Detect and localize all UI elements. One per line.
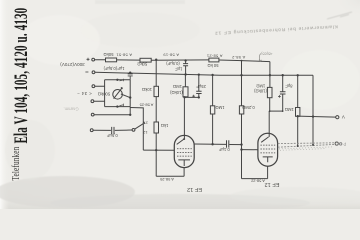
svg-text:50kΩ: 50kΩ [137, 61, 147, 66]
resistor R2 50k [140, 58, 151, 62]
svg-text:A 58-21: A 58-21 [206, 53, 222, 58]
top right corner shade + streak [0, 0, 1, 1]
terminal T4 stub [91, 100, 94, 103]
svg-text:50kΩ: 50kΩ [104, 52, 114, 57]
resistor R4 10k [154, 86, 159, 96]
capacitor Ce 8uF electrolytic [280, 75, 286, 111]
vertical X2 1M [212, 75, 214, 106]
tube V1 top node dot [183, 138, 185, 140]
svg-text:25µF: 25µF [196, 84, 206, 89]
svg-text:EF 12: EF 12 [265, 181, 280, 187]
svg-text:1MΩ: 1MΩ [285, 107, 294, 112]
dashed line D1 [278, 142, 335, 145]
minus sign T2 [85, 71, 88, 73]
plate node line tube1 [185, 96, 199, 99]
plate node line tube2 [269, 110, 282, 112]
tube V2 envelope [258, 133, 278, 166]
capacitor Cf 0,5uF [112, 127, 114, 134]
svg-text:Gramm.: Gramm. [63, 106, 78, 111]
wire [155, 97, 157, 122]
tube V1 screen exit right [193, 143, 195, 145]
terminal T6 (cap input) [90, 129, 93, 132]
svg-text:A 58-19: A 58-19 [163, 53, 179, 58]
capacitor Cd 0,1uF [227, 140, 229, 147]
wire [117, 59, 140, 61]
vertical X1 from bus [155, 60, 157, 87]
dashed line D2 [278, 144, 335, 147]
svg-text:45(65): 45(65) [260, 51, 272, 56]
svg-text:< 34 −: < 34 − [77, 91, 92, 96]
svg-text:(10kΩ): (10kΩ) [169, 90, 182, 95]
pot to switch riser [129, 107, 131, 115]
svg-text:(0,5µF): (0,5µF) [166, 61, 180, 66]
output terminal circles [335, 142, 338, 145]
resistor R5 1k [154, 122, 159, 133]
potentiometer P1 wiper diagonal [114, 88, 123, 99]
capacitor Cc 25uF electrolytic [196, 75, 201, 98]
vertical X3 [241, 61, 243, 106]
wire H4 to output V [298, 116, 336, 117]
wire [219, 60, 270, 62]
wire to Cf [93, 129, 111, 131]
wire X5 corner down [312, 75, 314, 145]
switch S1 lever [135, 123, 144, 129]
dashed output lines [278, 142, 342, 150]
grid line tube2 [242, 149, 258, 151]
tube V2 grids [260, 144, 275, 146]
svg-text:300V(270V): 300V(270V) [60, 62, 85, 67]
svg-text:50 kΩ: 50 kΩ [207, 63, 218, 68]
svg-text:12: 12 [142, 130, 147, 135]
terminal T3 stub [92, 85, 95, 88]
terminal T2 minus [92, 71, 95, 74]
wire T5 to riser [94, 114, 130, 116]
tube2 plate stem [268, 111, 270, 137]
cathode rail tube1 [156, 175, 184, 177]
svg-text:1µF: 1µF [175, 66, 183, 71]
svg-text:A 58-22: A 58-22 [250, 179, 265, 184]
resistor R8 0,2M [239, 106, 243, 114]
svg-text:Ela V 104, 105, 4120 u. 4130: Ela V 104, 105, 4120 u. 4130 [11, 8, 32, 144]
cathode rail tube2 [242, 178, 268, 180]
switch contact tick [144, 122, 145, 124]
tube V1 envelope [174, 135, 194, 167]
switch S1 contact circle [132, 129, 135, 132]
capacitor Ca 1uF(0,5uF) [128, 74, 133, 80]
wire X1 down to cathode rail [155, 133, 157, 176]
svg-text:0,1µF: 0,1µF [218, 147, 229, 152]
wiper tap marks on loop [120, 79, 124, 82]
plus mark Cc [192, 95, 195, 98]
coupling line H3 [194, 143, 226, 145]
tube V2 plate diagonal [261, 137, 268, 142]
wire junction to switch top [130, 108, 143, 151]
wire to switch contact [115, 129, 132, 131]
svg-text:1kΩ: 1kΩ [161, 123, 169, 128]
svg-text:0,2MΩ: 0,2MΩ [242, 105, 254, 110]
wire H1 drop to H2 [269, 62, 271, 88]
svg-text:0,5µF: 0,5µF [106, 133, 117, 138]
svg-text:A 58-2: A 58-2 [231, 55, 245, 60]
faint top edge smudge [95, 0, 185, 4]
svg-text:1MΩ: 1MΩ [173, 84, 182, 89]
tube V1 grids [177, 148, 192, 150]
adjustment arrow at screen node [259, 54, 262, 62]
terminal T5 (direct input) [91, 113, 94, 116]
svg-text:(10kΩ): (10kΩ) [254, 89, 267, 94]
resistor R7 1M [210, 106, 214, 114]
output terminal V [336, 116, 339, 119]
plus sign T1 [87, 58, 90, 61]
tube V1 cathode [178, 160, 190, 166]
vertical X4 [297, 75, 299, 107]
resistor R9 1M(10k) plate tube2 [267, 87, 272, 97]
svg-text:10kΩ: 10kΩ [142, 87, 152, 92]
svg-text:8µF: 8µF [285, 84, 293, 89]
tube V1 plate diagonal [177, 139, 184, 144]
wire [151, 59, 209, 61]
tube V2 cathode [263, 157, 273, 162]
capacitor Cb 1uF across rails [183, 61, 188, 75]
dotted line D3 [279, 147, 332, 150]
svg-text:A 58-25: A 58-25 [159, 177, 174, 182]
terminal T1 + [92, 58, 95, 61]
grid line tube1 [143, 149, 174, 151]
svg-text:EF 12: EF 12 [187, 186, 202, 192]
resistor R3 50k [209, 58, 219, 62]
svg-text:1MΩ: 1MΩ [256, 83, 265, 88]
tube2 cathode stem [267, 166, 269, 179]
tube1 plate stem [183, 97, 185, 139]
svg-text:1µF(0,5µF): 1µF(0,5µF) [103, 66, 124, 71]
potentiometer P1 body [113, 90, 123, 100]
svg-text:A 58-51: A 58-51 [116, 52, 132, 57]
svg-text:P: P [343, 142, 346, 147]
tube1 cathode stem [183, 167, 185, 176]
resistor R1 50k [106, 58, 117, 62]
wire H2 rail [95, 72, 313, 75]
potentiometer P1 500k loop [105, 80, 131, 107]
svg-text:1MΩ: 1MΩ [216, 105, 225, 110]
resistor R10 1M [296, 108, 300, 117]
plus mark Ce [278, 95, 281, 98]
resistor R6 1M(10k) plate tube1 [184, 74, 186, 86]
svg-text:500kΩ: 500kΩ [98, 91, 110, 96]
wire H1 bus [95, 59, 106, 61]
junction dots [116, 59, 314, 152]
svg-text:Telefunken: Telefunken [10, 146, 22, 180]
svg-text:A 58-25: A 58-25 [139, 103, 154, 108]
